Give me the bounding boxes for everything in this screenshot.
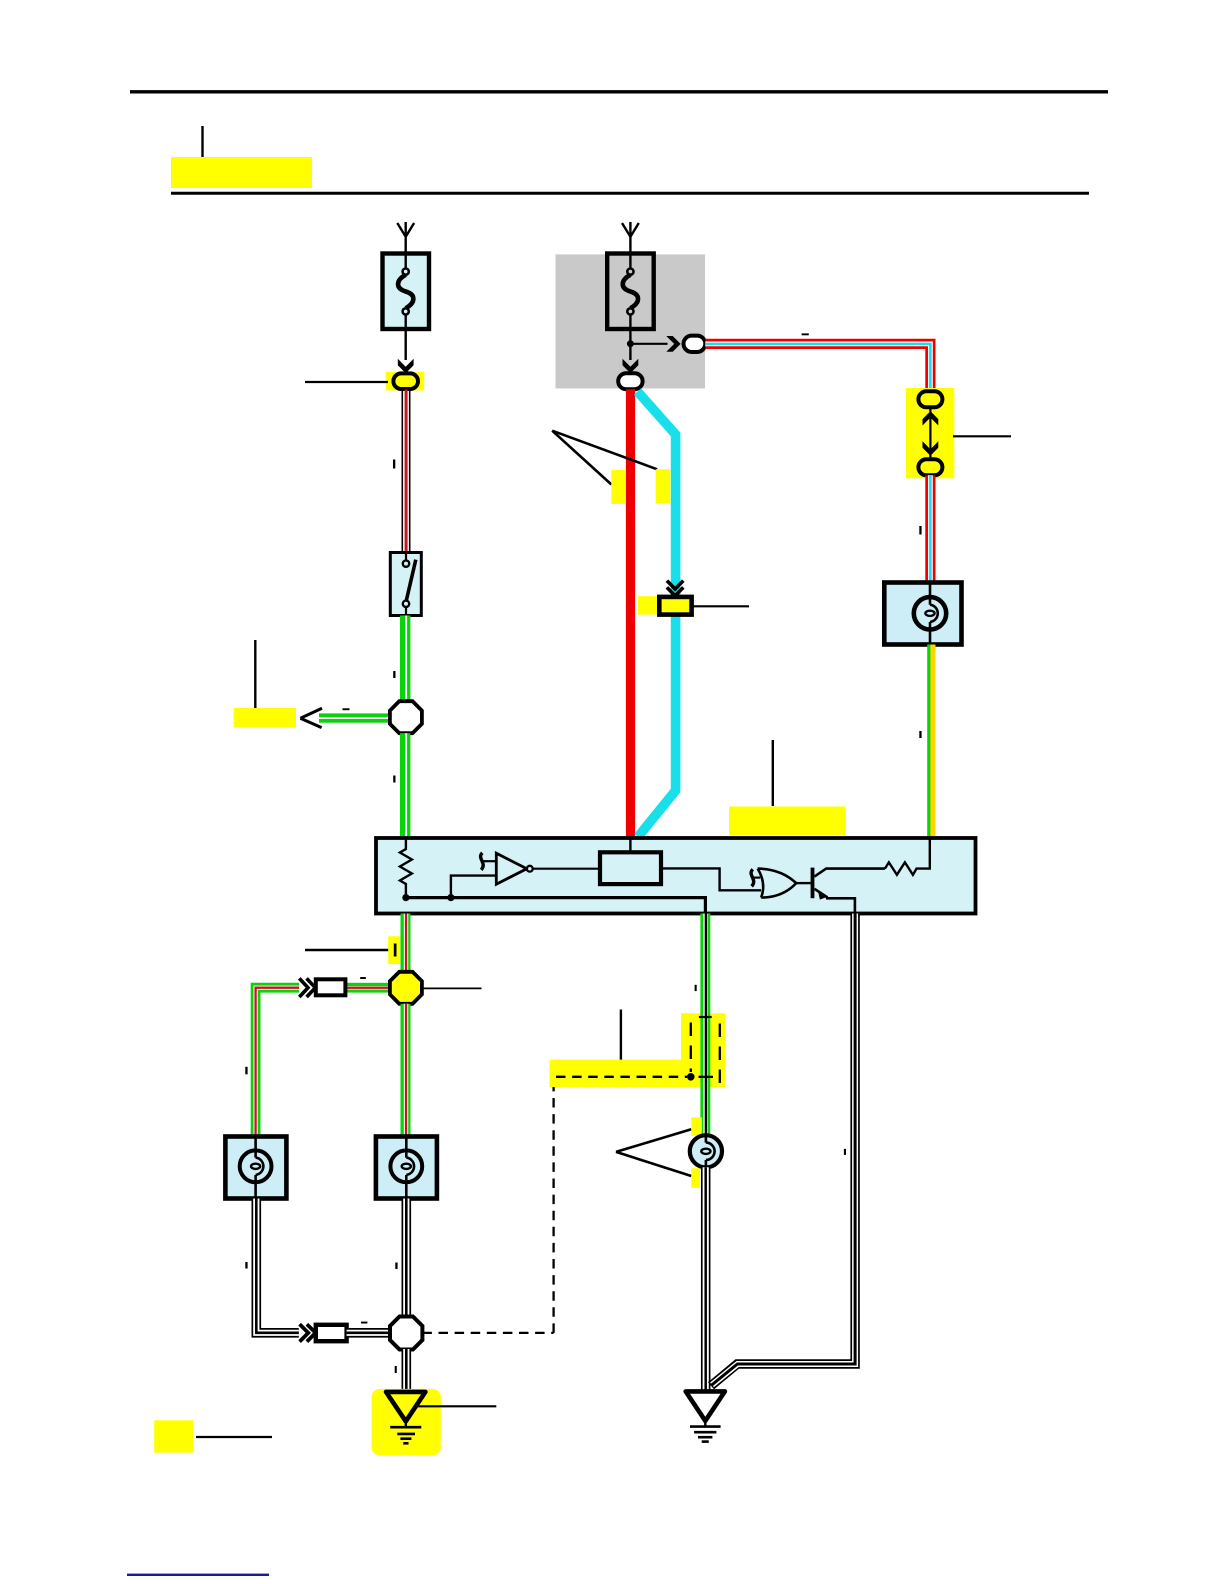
connector pair C1 [918,391,942,407]
transistor Q1 base bar [811,868,815,899]
wire W-B (ECU emitter to ground G2) [711,914,855,1386]
wire G-W branch (J1 to left arrow) [319,713,391,722]
junction dot (inverter feed) [447,894,454,901]
connector pair C2 [918,459,942,475]
wire W (J3 to ground G1) [401,1349,411,1392]
label tick (R-L wire) [802,333,809,335]
pin tick (R-L wire below pair) [919,526,921,535]
wire R (thick red, connector D to ECU) [626,389,635,838]
delay squiggle (gate) [751,869,754,886]
ECU label pointer [772,740,774,806]
pin label highlight (G-R wire) [388,936,400,964]
inverter bubble [527,866,533,872]
arrow to other circuit (left) [300,708,322,727]
wire L (thick cyan, connector D to ECU) [638,392,676,837]
delay squiggle (inverter) [481,853,484,870]
connector B2 pointer [692,605,749,607]
pin tick (G-R wire) [394,944,397,957]
wire G-Y (right bulb to ECU) [927,645,935,839]
arrowhead up into C1 [923,411,939,425]
arrowhead into connector A [398,359,414,373]
right bulb pointer arrow [616,1129,691,1176]
node J1 octagon [390,701,422,733]
emitter arrowhead [818,890,828,900]
label tick (connector F) [361,1322,367,1324]
shield dashes over wire (redrawn solid) [556,1076,687,1078]
wire L label highlight [656,469,671,503]
header rule [171,192,1089,195]
junction dot (rail left) [402,894,409,901]
title pointer [201,126,203,158]
connector pair link line [929,408,931,460]
pin tick (W-B wire) [844,1149,846,1155]
connector B [684,336,706,352]
shield drain dashed wire [422,1077,687,1333]
wire G-W (switch to node J1) [400,616,410,702]
transistor Q1 emitter [814,889,855,914]
resistor R2 (horizontal) [885,838,930,875]
pin tick (G-Y wire) [919,731,921,738]
bottom-left note pointer [196,1436,272,1438]
switch S1 [390,553,421,616]
arrowhead into connector B [666,336,680,352]
ECU box [376,838,976,914]
connector D [618,373,642,389]
bottom-left note highlight [154,1420,193,1452]
label tick (J1 branch wire) [343,708,350,710]
squiggle link [483,860,496,862]
right indicator bulb box [884,583,961,645]
connector A [393,373,418,389]
wire G-R (ECU to node J2) [401,914,411,973]
wire W (left bulb to connector F) [256,1199,299,1333]
ground G1 (left) [386,1392,425,1443]
power feed arrow (left) [397,222,414,254]
shield top tick [699,1016,712,1018]
junction block (grey box) [556,254,706,388]
title highlight [171,157,312,188]
inverter input wire [451,876,496,898]
wire branch to connector B [630,343,667,345]
left bulb box [225,1137,286,1199]
ground G1 pointer [416,1405,496,1407]
left branch label pointer [254,640,256,708]
wire W (center bulb to node J3) [401,1199,411,1318]
pin tick (G-W wire) [393,671,395,678]
fuse F1 [383,253,430,329]
arrowhead into connector D [623,359,639,373]
connector A pointer [305,381,388,383]
wire gate to transistor [796,882,810,884]
node J2 pointer [422,987,482,989]
wire R-L (C2 to right bulb box) [925,475,935,582]
chevrons into connector F [300,1324,316,1341]
wire R-W (connector A to switch) [402,390,411,554]
ECU label highlight [729,807,846,836]
connector B2 [659,597,691,615]
shield pointer [620,1010,622,1060]
top rule [130,90,1108,93]
wire (fuse F1 to connector A) [405,329,407,360]
ground G2 (right) [686,1391,725,1441]
wire U1 to gate [661,868,761,890]
control unit U1 [600,852,661,884]
wire G-B (ECU to right bulb) [700,914,710,1136]
connector F [316,1325,347,1341]
wire R-L (connector B to connector pair) [705,344,930,391]
label tick (connector E) [360,977,366,979]
chevrons into connector B2 [667,581,683,596]
wire W (right bulb to ground G2) [701,1167,711,1391]
pin ticks (below bulbs) [245,1262,247,1269]
wire G-R (to left bulb) [256,988,299,1137]
wire G-R (J2 branch left) [344,983,391,993]
connector pair highlight [906,388,954,478]
shield dashed box [691,1023,720,1091]
connector B2 highlight [638,596,659,614]
wire (fuse F2 down) [629,329,631,360]
power feed arrow (right) [622,222,639,254]
wire label pointer lines [552,431,657,485]
internal rail [406,898,706,914]
right bulb pin highlights [691,1117,702,1136]
node J3 octagon [390,1317,422,1350]
center bulb box [376,1137,437,1199]
OR gate U3 [758,869,797,898]
wire R label highlight [611,470,626,504]
ground G1 highlight [372,1389,441,1456]
inverter U2 [496,853,527,884]
pin pointer (G-R wire) [305,949,388,951]
fuse F2 [607,253,654,329]
squiggle link (gate) [754,876,761,878]
chevrons into connector E [299,978,315,997]
shield drain dot [687,1073,695,1081]
connector A highlight [386,372,424,391]
node J2 octagon (highlighted) [390,972,422,1004]
wire W (connector F to node J3) [347,1328,391,1338]
arrowhead down into C2 [923,441,939,455]
wire G-W (J1 to ECU) [400,733,410,838]
wire R input to U1 [629,838,631,852]
shield highlight (L shape) [550,1060,726,1087]
wire G-R (J2 to center bulb) [401,1004,411,1137]
pin tick (R-W wire) [393,460,395,469]
pin tick (G-B wire) [695,985,697,991]
left branch label highlight [234,708,296,728]
connector pair pointer [953,435,1011,437]
hyperlink underline [127,1574,269,1576]
shield lower tick [699,1076,714,1078]
transistor Q1 collector [814,869,885,877]
wire inverter to U1 [533,868,600,870]
pin tick (left bulb wire) [245,1067,247,1075]
pin tick (above ground G1) [395,1366,397,1373]
resistor R1 (vertical) [400,838,412,898]
junction dot [627,340,634,347]
right bulb (no box) [690,1135,722,1167]
connector E [316,979,346,995]
pin tick (G-W wire at ECU) [393,776,395,783]
